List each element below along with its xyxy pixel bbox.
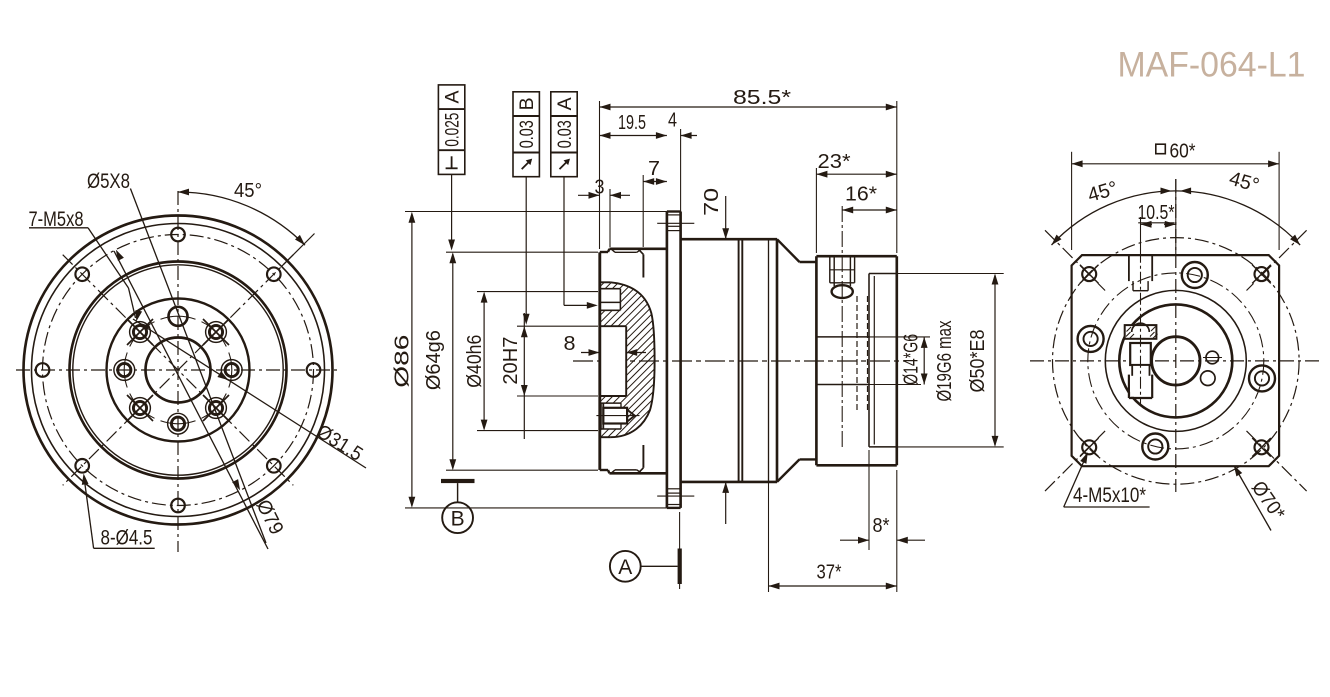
dim 23 <box>815 168 817 253</box>
white bores over hatch <box>600 289 621 311</box>
dim 3 <box>578 194 600 196</box>
chamfer cone top <box>777 239 800 262</box>
svg-text:7: 7 <box>648 158 660 180</box>
dimension line D31.5 <box>133 319 366 468</box>
corner diagonals dash-dot <box>1045 230 1105 290</box>
housing internal line 1 <box>738 239 740 482</box>
dim 19.5 <box>600 135 667 137</box>
svg-text:8-Ø4.5: 8-Ø4.5 <box>101 527 153 550</box>
svg-text:A: A <box>443 90 464 103</box>
M5 threaded hole at 45deg <box>206 398 227 419</box>
bolt circle 31.5 arc at 270deg <box>161 316 196 319</box>
access hole at 11.5deg <box>1249 365 1275 391</box>
M5 hole notch bottom <box>600 402 621 404</box>
dim 4 <box>681 135 697 137</box>
svg-text:7-M5x8: 7-M5x8 <box>29 208 84 231</box>
hub face <box>598 252 601 470</box>
main centerline <box>573 360 906 362</box>
45deg extension line <box>282 234 315 267</box>
corner hole M5 at 1262,447 <box>1255 440 1269 454</box>
M5 hole notch top <box>600 288 621 290</box>
bore D14 lines <box>816 336 869 338</box>
svg-text:0.03: 0.03 <box>555 120 576 148</box>
neck <box>800 261 817 263</box>
dim 7 <box>642 175 644 247</box>
center bore circle <box>146 338 211 403</box>
corner hole M5 at 1089,274 <box>1082 267 1096 281</box>
clamp screw head section <box>1125 325 1157 339</box>
outer hole 4.5 at 270deg <box>171 228 185 242</box>
dimension line D79 through center <box>114 251 268 549</box>
output flange disc D86 <box>666 212 669 508</box>
boss chamfer circle <box>73 265 283 475</box>
boss circle <box>70 262 287 479</box>
hub top profile <box>600 251 608 253</box>
svg-text:23*: 23* <box>818 151 851 173</box>
inner ring circle <box>107 299 250 442</box>
bolt circle 31.5 arc at 90deg <box>161 421 196 424</box>
svg-text:20H7: 20H7 <box>500 337 522 385</box>
dim square 60 <box>1071 152 1073 250</box>
outer hole 4.5 at 225deg <box>75 267 89 281</box>
svg-text:0.03: 0.03 <box>517 120 538 148</box>
clamp screw centerline <box>841 206 843 447</box>
svg-text:10.5*: 10.5* <box>1138 202 1175 224</box>
hub bottom profile <box>600 469 608 471</box>
svg-text:37*: 37* <box>817 562 842 584</box>
45deg arcs <box>1052 191 1176 245</box>
counterbore D50E8 <box>868 274 870 447</box>
circle D70 dash-dot <box>1053 238 1300 485</box>
svg-text:MAF-064-L1: MAF-064-L1 <box>1118 45 1306 85</box>
svg-text:8: 8 <box>564 333 576 355</box>
dome outline <box>610 282 654 437</box>
bolt circle 31.5 arc at 225deg <box>130 322 155 347</box>
M5 threaded hole at 180deg <box>114 360 135 381</box>
svg-text:Ø14*G6: Ø14*G6 <box>901 334 923 385</box>
dim 8 counterbore <box>868 450 870 550</box>
leader line D5X8 through top dowel hole <box>130 189 266 544</box>
label 4-M5x10 <box>1064 506 1150 508</box>
M5 threaded hole at 135deg <box>130 398 151 419</box>
bolt circle 31.5 arc at 0deg <box>229 353 232 388</box>
housing main body <box>681 238 777 241</box>
access hole at -77.5deg <box>1182 262 1208 288</box>
bore 20H7 <box>600 325 626 327</box>
corner hole M5 at 1262,274 <box>1255 267 1269 281</box>
centerline vertical <box>177 191 179 552</box>
dim 20H7 <box>517 325 598 327</box>
access hole at 103.5deg <box>1142 434 1168 460</box>
flange top chamfer + bolt hole lines <box>667 214 681 216</box>
dim D14G6 <box>869 336 930 338</box>
centerline diagonal 45 TL-BR <box>63 255 294 486</box>
center bore <box>1152 337 1200 385</box>
svg-text:8*: 8* <box>873 515 890 537</box>
bolt circle 31.5 arc at 180deg <box>124 353 127 388</box>
assembly screw <box>603 408 627 424</box>
screw axis <box>596 415 639 417</box>
bolt circle 31.5 arc at 135deg <box>130 394 155 419</box>
flange bottom hole centerline tick <box>657 495 694 497</box>
centerline horizontal <box>16 369 340 371</box>
datum B symbol <box>441 479 475 483</box>
centerline diagonal 45 TR-BL <box>63 255 294 486</box>
svg-text:0.025: 0.025 <box>443 113 464 147</box>
svg-text:Ø50*E8: Ø50*E8 <box>967 330 989 393</box>
dim D50E8 <box>874 273 1004 275</box>
outer hole 4.5 at 180deg <box>36 363 50 377</box>
slot centerline <box>1140 251 1142 404</box>
dim D40h6 <box>477 291 598 293</box>
feature control frame runout 0.03 B <box>513 92 539 177</box>
chamfer cone bottom <box>777 459 800 482</box>
outer hole 4.5 at 0deg <box>307 363 321 377</box>
small hole 1 <box>1206 351 1219 364</box>
label D70 leader <box>1235 467 1272 531</box>
M5 threaded hole at 225deg <box>130 322 151 343</box>
svg-text:A: A <box>555 97 576 110</box>
dim D86 <box>405 211 667 213</box>
M5 threaded hole at 90deg <box>168 413 189 434</box>
dim 85.5 <box>599 101 601 249</box>
hatching <box>420 265 1039 445</box>
hidden slot lines <box>856 296 858 412</box>
M5 threaded hole at 315deg <box>206 322 227 343</box>
dim 37 <box>768 482 770 592</box>
datum A symbol <box>679 512 681 589</box>
dim D64g6 <box>446 251 598 253</box>
svg-text:70: 70 <box>701 188 723 216</box>
svg-text:19.5: 19.5 <box>618 112 646 134</box>
svg-text:Ø64g6: Ø64g6 <box>423 330 445 390</box>
input flange block <box>815 256 818 465</box>
clamp screw hole <box>829 256 831 283</box>
svg-text:Ø5X8: Ø5X8 <box>87 170 130 193</box>
svg-text:B: B <box>451 508 465 531</box>
svg-text:B: B <box>517 97 538 110</box>
recess lines <box>600 281 611 283</box>
flange outer circle D86 <box>24 216 333 525</box>
access hole at 194.5deg <box>1078 326 1104 352</box>
outer hole 4.5 at 90deg <box>171 499 185 513</box>
45deg dimension arc <box>178 192 305 245</box>
svg-text:85.5*: 85.5* <box>733 87 791 109</box>
dim 16 <box>842 209 897 211</box>
square flange outline <box>1072 255 1280 466</box>
dowel hole D5x8 at top <box>169 307 188 326</box>
centerline vertical <box>1175 179 1177 492</box>
flange top hole centerline tick <box>657 222 694 224</box>
leader 8-D4.5 <box>94 547 155 549</box>
feature control frame perp 0.025 A <box>438 85 464 174</box>
svg-text:Ø86: Ø86 <box>391 335 413 388</box>
leader 7-M5x8 <box>29 227 88 229</box>
clamp screw ellipse <box>832 285 853 298</box>
centerline horizontal <box>1030 360 1322 362</box>
inner ring circle <box>1119 304 1232 417</box>
dim 70 <box>725 196 727 239</box>
corner hole M5 at 1089,447 <box>1082 440 1096 454</box>
svg-text:60*: 60* <box>1170 141 1196 163</box>
body circle <box>1105 290 1246 431</box>
outer hole 4.5 at 135deg <box>75 459 89 473</box>
svg-text:4: 4 <box>668 110 677 132</box>
svg-text:4-M5x10*: 4-M5x10* <box>1073 484 1146 507</box>
M5 threaded hole at 0deg <box>221 360 242 381</box>
bolt circle 31.5 arc at 45deg <box>202 394 227 419</box>
feature control frame runout 0.03 A <box>551 92 577 177</box>
svg-text:Ø19G6 max: Ø19G6 max <box>934 321 956 402</box>
svg-text:Ø40h6: Ø40h6 <box>464 335 486 388</box>
bolt circle 31.5 arc at 315deg <box>202 322 227 347</box>
dim 8 depth <box>581 352 600 354</box>
flange chamfer circle <box>32 224 325 517</box>
housing internal line 2 <box>741 239 743 482</box>
housing internal line 3 <box>768 239 770 482</box>
outer hole 4.5 at 45deg <box>267 459 281 473</box>
bolt circle of access holes <box>1088 273 1264 449</box>
outer hole 4.5 at 315deg <box>267 267 281 281</box>
svg-text:A: A <box>618 556 632 579</box>
screw shank <box>1130 343 1151 365</box>
svg-text:45°: 45° <box>234 180 262 202</box>
bolt circle D79 dash-dot <box>43 235 314 506</box>
small hole 2 <box>1201 371 1216 386</box>
svg-text:16*: 16* <box>845 184 877 206</box>
dim 10.5 <box>1140 217 1142 251</box>
svg-text:3: 3 <box>595 177 605 199</box>
